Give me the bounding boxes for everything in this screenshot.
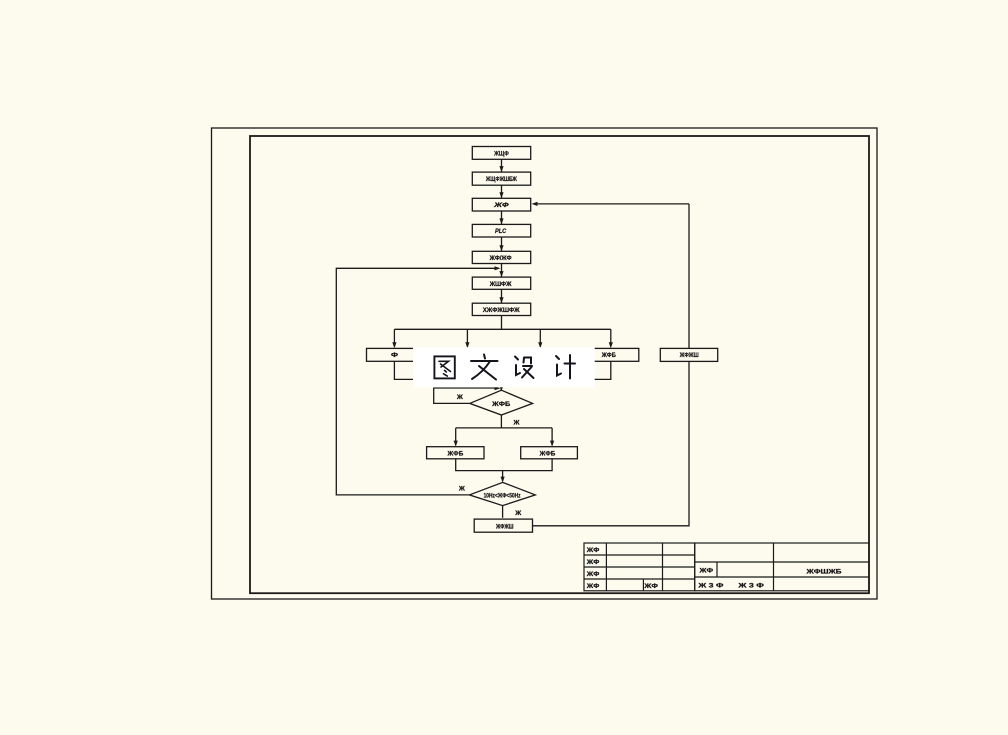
wire A2 merge down [466,361,468,379]
svg-text:Ж: Ж [514,510,521,517]
title row line 1 [584,554,695,556]
diamond DM1 in position [470,390,533,415]
wire no-loop DM2 [336,268,497,495]
svg-text:ЖФ: ЖФ [586,559,600,566]
box D stop run [474,519,532,532]
wire A3 merge down [539,361,541,379]
title col line a [605,543,607,591]
wire merge to DM1 [500,379,502,389]
wire B3-B4 [501,211,503,224]
arrowhead into C1 [454,441,458,447]
arrowhead feedback into B3 right [532,202,538,206]
wire D feedback right [533,361,690,525]
svg-text:ЖШФЖ: ЖШФЖ [489,281,512,288]
svg-text:10Hz<ЖФ<50Hz: 10Hz<ЖФ<50Hz [484,493,522,500]
wire DM1 to split [500,415,502,428]
title col line c [642,579,644,591]
box B4 PLC [472,224,530,237]
svg-text:ЖФЖШ: ЖФЖШ [495,523,513,530]
svg-text:Ж: Ж [458,485,465,492]
wire drop to A4 [610,329,612,346]
arrowhead into B4 [499,218,503,224]
wire split line [456,427,552,429]
svg-text:ЖФБ: ЖФБ [447,451,464,458]
svg-text:Ж 3 Ф: Ж 3 Ф [737,583,764,590]
svg-text:ЖЩФЖШБЖ: ЖЩФЖШБЖ [485,176,517,183]
box B1 touchscreen [472,147,530,160]
title block left outline [584,543,695,591]
wire drop to C1 [455,428,457,445]
wire drop to C2 [551,428,553,445]
title block right outline [695,543,869,591]
wire C1 merge [456,459,552,471]
box B5 fwd/rev [472,251,530,263]
title scale cell divider [716,562,718,577]
box A5 manual adjust [660,348,717,361]
svg-text:Ж 3 Ф: Ж 3 Ф [697,583,724,590]
arrowhead into B3 [499,192,503,198]
wire feedback into B3 [534,203,690,205]
svg-text:ЖФ: ЖФ [586,547,600,554]
outer border frame [212,128,878,599]
wire distribution line [394,328,610,330]
diamond DM2 frequency range [469,482,535,505]
box B6 detect input [472,277,530,289]
svg-text:ЖФБ: ЖФБ [601,352,616,359]
arrowhead into A4 [609,342,613,348]
watermark glyph wen [471,355,498,380]
watermark glyph she [515,357,534,379]
wire A4 merge down [501,361,611,379]
svg-text:ЖФ/ЖФ: ЖФ/ЖФ [489,255,512,262]
arrowhead into DM2 [501,477,505,483]
wire A5 up feedback [688,204,690,349]
wire B4-B5 [501,237,503,251]
svg-text:Ж: Ж [456,394,463,401]
title right row line 1 [695,561,869,563]
title row line 3 [584,578,695,580]
inner border frame [250,136,869,593]
title right row line 2 [695,576,869,578]
box C1 accelerate [427,447,484,459]
wire A1 merge down [394,361,501,379]
svg-text:ЖФ: ЖФ [643,583,658,590]
arrowhead into A2 [465,342,469,348]
svg-text:Ж: Ж [513,419,520,426]
svg-text:ЖФЖШ: ЖФЖШ [679,352,699,359]
box B3 program [472,198,530,211]
wire B2-B3 [501,185,503,198]
box A3 hidden [514,348,567,361]
box A4 speed regulator [583,348,639,361]
box B2 subroutine [472,172,530,185]
svg-text:ЖФБ: ЖФБ [491,401,510,408]
box A1 pause [367,348,414,361]
wire drop to A1 [393,329,395,346]
arrowhead into A3 [538,342,542,348]
watermark glyph ji [556,355,575,379]
watermark glyph tu [434,356,454,378]
wire B6-B7 [501,289,503,303]
watermark box [413,347,595,387]
svg-text:ЖФШЖБ: ЖФШЖБ [805,569,842,576]
wire drop to A3 [539,329,541,346]
arrowhead into B7 [499,297,503,303]
wire no-loop DM1 [434,388,498,403]
svg-text:ХЖФЖШФЖ: ХЖФЖШФЖ [483,307,520,314]
svg-text:ЖФ: ЖФ [586,583,600,590]
svg-text:PLC: PLC [495,228,507,235]
title right col divider [773,543,775,591]
arrowhead into B5 [499,245,503,251]
wire B7-distribution [501,316,503,330]
wire B5-B6 [501,264,503,278]
wire drop to A2 [466,329,468,346]
box B7 pulse count [472,303,530,315]
arrowhead into C2 [550,441,554,447]
title col line b [662,543,664,591]
title row line 2 [584,566,695,568]
svg-text:ЖФ: ЖФ [586,571,600,578]
arrowhead into B6 [499,271,503,277]
arrowhead into A1 [392,342,396,348]
wire merge to DM2 [502,471,504,481]
arrowhead no-loop2 junction [495,266,501,270]
arrowhead no-loop1 junction [495,386,501,390]
box C2 decelerate [521,447,578,459]
arrowhead into DM1 [499,385,503,391]
arrowhead into B2 [499,166,503,172]
svg-text:ЖФ: ЖФ [493,202,510,209]
box A2 hidden [441,348,494,361]
svg-text:Ф: Ф [391,352,398,359]
svg-text:ЖЩФ: ЖЩФ [493,150,509,157]
wire DM2 to D [502,506,504,518]
wire B1-B2 [501,159,503,172]
svg-text:ЖФБ: ЖФБ [539,451,556,458]
svg-text:ЖФ: ЖФ [698,568,713,575]
